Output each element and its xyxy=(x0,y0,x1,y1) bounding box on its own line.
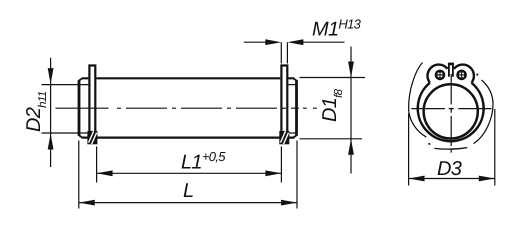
end view: ring inner circle xyxy=(424,84,478,138)
right retaining ring band xyxy=(280,64,288,131)
D2 dimension line xyxy=(50,58,52,167)
right ring hatched section xyxy=(279,131,289,144)
svg-text:D3: D3 xyxy=(437,158,462,180)
end view: sprung ring thin arc upper-left piece xyxy=(409,63,427,138)
groove diameter line left cap bottom (D2 extension) xyxy=(42,132,89,134)
end view: right lug wing xyxy=(454,65,474,83)
M1 right arrow pointing left at groove xyxy=(287,39,303,45)
L right arrow xyxy=(281,200,297,206)
L left arrow xyxy=(79,200,95,206)
L1 left arrow xyxy=(97,170,113,176)
end view: right lug xyxy=(456,70,467,81)
L dimension line xyxy=(79,202,297,204)
end view: left lug wing xyxy=(427,65,447,83)
centerline of pin dashed part xyxy=(117,107,299,109)
end view: sprung ring dot right xyxy=(476,74,478,76)
svg-text:L1+0,5: L1+0,5 xyxy=(181,149,226,174)
D2 bottom arrow xyxy=(48,134,54,150)
D3 dimension line xyxy=(409,178,495,180)
pin body bottom outline xyxy=(82,137,295,139)
D3 extension lines xyxy=(409,109,495,186)
M1 extension lines xyxy=(281,42,287,63)
svg-text:M1H13: M1H13 xyxy=(312,17,362,41)
pin right chamfers xyxy=(293,78,297,137)
M1 dimension line right part xyxy=(302,41,345,43)
centerline right stub xyxy=(303,107,317,109)
M1 dimension line left part xyxy=(244,41,267,43)
end view: ring outer circle (gap at lugs) xyxy=(418,83,484,141)
svg-text:D2h11: D2h11 xyxy=(23,91,49,132)
M1 left arrow pointing right at groove xyxy=(265,39,281,45)
left retaining ring band xyxy=(88,64,96,131)
end view: sprung ring thin arc right piece xyxy=(474,80,493,144)
groove diameter line right cap top xyxy=(288,84,295,86)
end view: left lug xyxy=(435,70,446,81)
L1 extension lines xyxy=(97,147,282,183)
pin right end face xyxy=(295,80,298,136)
svg-text:L: L xyxy=(183,180,193,202)
left ring hatched section xyxy=(87,131,97,144)
D3 left arrow xyxy=(409,176,425,182)
D1 extension lines xyxy=(300,78,366,139)
groove diameter line left cap top (D2 extension) xyxy=(42,84,89,86)
D1 top arrow xyxy=(348,62,354,78)
D1 bottom arrow xyxy=(348,139,354,155)
end view: horizontal centerline xyxy=(411,108,491,110)
end view: ring gap slot xyxy=(449,63,453,77)
L1 dimension line xyxy=(97,172,282,174)
L extension lines xyxy=(79,141,297,209)
D1 dimension line xyxy=(350,47,352,174)
end view: sprung ring thin arc bottom piece xyxy=(434,148,467,150)
pin body top outline xyxy=(82,77,295,79)
end view: sprung ring dot left xyxy=(428,143,430,145)
pin left chamfers xyxy=(79,78,83,137)
D2 top arrow xyxy=(48,68,54,84)
centerline of pin solid part xyxy=(56,107,109,109)
svg-text:D1f8: D1f8 xyxy=(319,88,345,122)
pin left end face xyxy=(78,80,81,136)
L1 right arrow xyxy=(265,170,281,176)
D3 right arrow xyxy=(479,176,495,182)
groove diameter line right cap bottom xyxy=(288,132,295,134)
end view: vertical centerline xyxy=(450,74,452,153)
